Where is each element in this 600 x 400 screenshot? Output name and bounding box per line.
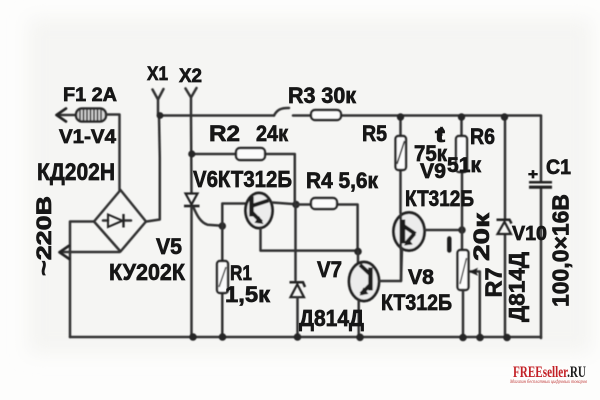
node gate/R1/base junction [219,222,226,229]
resistor R6 [456,136,467,172]
resistor R3 [311,110,341,120]
capacitor C1 [529,181,552,184]
svg-text:V5: V5 [156,234,182,259]
svg-text:1,5к: 1,5к [225,282,271,307]
svg-text:Магазин бесплатных цифровых то: Магазин бесплатных цифровых товаров [509,378,587,385]
svg-text:+: + [528,166,538,183]
zener diode V10 [497,220,512,224]
wire R4 branch [296,205,358,252]
wire V10 column [504,117,507,338]
svg-text:R6: R6 [470,124,495,149]
wire V8 emitter to rail [357,301,360,338]
zener V7 [290,282,306,287]
resistor R1 [217,261,228,293]
wire X2 down to V5 [190,115,193,193]
svg-text:R3 30к: R3 30к [288,83,357,108]
svg-text:V6КТ312Б: V6КТ312Б [193,166,292,192]
node R2/R4/V7 junction [292,201,299,208]
diode inside bridge [103,219,131,222]
svg-text:R4 5,6к: R4 5,6к [306,168,379,193]
wire V5 gate [194,208,223,226]
svg-text:Д814Д: Д814Д [505,252,530,322]
node V8 top junction [354,248,362,256]
resistor R5 [396,136,407,170]
node R6 on top rail [458,113,465,120]
svg-text:Д814Д: Д814Д [299,305,364,331]
thyristor V5 [186,194,198,205]
node R1 on bottom rail [219,333,227,341]
svg-text:X2: X2 [179,66,202,87]
svg-text:V10: V10 [512,223,547,245]
antenna X2 [186,88,197,115]
resistor R4 [311,198,337,209]
wire top rail left segment [160,114,274,117]
switch S contact hook [274,108,289,116]
svg-text:R2: R2 [209,121,240,146]
node R5 on top rail [397,113,404,120]
svg-text:R5: R5 [362,121,387,146]
node V8 emitter on bottom rail [356,334,364,342]
node X1 on top rail [157,112,164,119]
node V10 on bottom rail [503,334,511,342]
svg-text:V8: V8 [408,266,434,289]
wire ~220V arrow from bridge bottom corner [61,251,120,254]
wire V7 branch down [294,205,297,281]
resistor R7 (rheostat) [458,250,469,290]
svg-text:F1 2A: F1 2A [63,85,117,106]
svg-text:20к: 20к [469,212,494,261]
svg-text:R7: R7 [481,268,507,298]
transistor V6 [246,193,273,228]
node R2 tap on X2 line [188,150,195,157]
svg-text:100,0×16В: 100,0×16В [548,194,574,307]
fuse F1 [58,114,76,117]
svg-text:КУ202К: КУ202К [109,259,186,285]
node V7 on bottom rail [294,333,302,341]
svg-text:V7: V7 [317,257,342,282]
wire V8 top lead [357,252,360,264]
svg-text:КТ312Б: КТ312Б [405,186,474,211]
wire fuse to bridge top [106,115,120,191]
node R7 on bottom rail [459,334,467,342]
wire V8 collector to V9 emitter [379,247,401,281]
wire V9 collector to R6 line [425,229,463,232]
wire R2 branch [192,154,295,205]
svg-text:51к: 51к [447,154,481,177]
antenna X1 [153,89,164,116]
svg-text:C1: C1 [546,156,571,179]
wire junction up to V6 base [222,204,246,227]
svg-text:V1-V4: V1-V4 [59,127,116,148]
bridge rectifier V1-V4 diamond [94,190,146,252]
wire R5 branch [399,117,402,213]
transistor V9 [394,213,425,251]
node V9/R6 junction [458,226,465,233]
wire V5 cathode to bottom rail [190,207,193,337]
svg-text:~220В: ~220В [33,196,56,276]
svg-text:X1: X1 [147,64,168,85]
wire V6 emitter across [261,228,359,251]
wire top rail right segment [293,114,541,117]
resistor R2 [236,148,265,160]
wire V6 collector to node [273,203,297,205]
wire V7 to rail [296,298,299,338]
wire bottom rail [70,336,541,339]
wire V9 emitter down [401,248,402,281]
wire C1 branch down [540,116,543,338]
transistor V8 [349,262,379,301]
node V5 cathode on bottom rail [189,333,197,341]
svg-text:КТ312Б: КТ312Б [381,290,452,315]
wire R1 branch [221,226,224,337]
tick mark [447,239,451,251]
R7 wiper arrow [470,272,480,338]
svg-text:V9: V9 [420,160,446,183]
svg-text:КД202Н: КД202Н [37,159,115,186]
wire R6 column [460,117,463,250]
wire X1 down to bridge right corner [147,116,160,222]
node V10 on top rail [501,113,508,120]
node R7 wiper on bottom rail [476,334,484,342]
svg-text:24к: 24к [256,121,289,146]
wire left vertical from bridge left corner [70,222,94,338]
